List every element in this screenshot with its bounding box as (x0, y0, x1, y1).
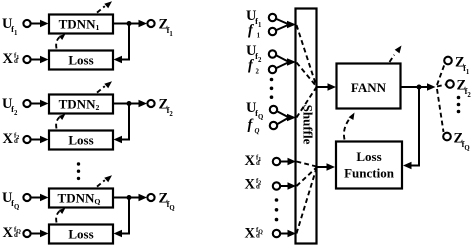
node output Z_fQ (147, 194, 154, 201)
svg-text:TDNN1: TDNN1 (59, 16, 100, 32)
block FANN (337, 64, 401, 109)
svg-text:TDNN2: TDNN2 (59, 96, 100, 112)
svg-text:X: X (3, 51, 14, 67)
node f_1 right (269, 28, 276, 35)
wire feedback FANN to Loss Function (403, 87, 419, 169)
node U_f2 right (269, 50, 276, 57)
svg-text:Function: Function (344, 166, 395, 181)
wire X_d_fQ to shuffle (281, 230, 296, 238)
svg-text:d: d (256, 233, 260, 240)
svg-text:X: X (245, 226, 256, 242)
label f_2 right (248, 58, 260, 76)
label Z_f2 out (457, 78, 472, 99)
node junction group1 (127, 21, 132, 26)
dashed arrow Loss1 to TDNN1 (56, 34, 65, 49)
label X_d_f2 (3, 131, 20, 147)
label X_d_f1 (3, 51, 20, 67)
node output Z_f1 (147, 20, 154, 27)
node input X_d_f1 (23, 56, 30, 63)
node X_d_fQ right (273, 230, 280, 237)
svg-text:d: d (256, 184, 260, 191)
label U_fQ (2, 190, 19, 211)
wire feedback group1 (114, 24, 130, 64)
svg-text:d: d (14, 232, 18, 239)
label f_1 right (248, 23, 261, 40)
wire U_f2 to TDNN2 (31, 100, 49, 108)
node f_Q right (270, 122, 277, 129)
label U_fQ right (246, 100, 263, 121)
svg-text:d: d (14, 138, 18, 145)
node junction groupQ (127, 195, 132, 200)
dashed arrow Loss2 to TDNN2 (56, 114, 65, 129)
wire FANN output (401, 83, 436, 91)
wire TDNNQ output (113, 194, 147, 202)
wire X_d_f2 to Loss2 (31, 136, 49, 144)
node input X_d_f2 (23, 136, 30, 143)
label X_d_f2 right (245, 177, 262, 193)
dashed fan output to Z_f2 (437, 85, 446, 87)
node Z_f1 out (444, 57, 452, 65)
wire pairQ to shuffle (278, 112, 297, 125)
dots right input lower (275, 198, 279, 221)
label X_d_fQ right (245, 226, 264, 242)
node junction group2 (127, 101, 132, 106)
label X_d_fQ (3, 225, 22, 241)
wire feedback groupQ (114, 198, 130, 238)
dashed fan lower: X1 to Loss node (297, 162, 317, 167)
node output Z_f2 (147, 100, 154, 107)
dashed fan upper: pairQ to FANN node (297, 87, 317, 118)
node U_f1 right (269, 14, 276, 21)
wire TDNN2 output (113, 100, 147, 108)
dashed adaptation arrow TDNNQ (97, 175, 112, 186)
svg-text:TDNNQ: TDNNQ (58, 190, 101, 206)
dashed fan upper: pair2 to FANN node (297, 63, 317, 87)
label f_Q right (248, 117, 260, 135)
block TDNNQ (49, 189, 113, 208)
wire X_d_fQ to LossQ (31, 230, 49, 238)
dashed fan output to Z_f1 (437, 63, 445, 85)
dashed arrow LossQ to TDNNQ (56, 208, 65, 223)
svg-text:d: d (256, 160, 260, 167)
wire feedback group2 (114, 104, 130, 144)
svg-text:Loss: Loss (68, 226, 93, 241)
label Z_f1 (159, 17, 174, 38)
wire shuffle to Loss Function (317, 163, 336, 171)
svg-text:Q: Q (255, 128, 260, 135)
block LossQ (49, 225, 113, 244)
label U_f1 (2, 16, 18, 37)
dashed adaptation arrow FANN (390, 46, 402, 63)
svg-text:2: 2 (256, 68, 260, 75)
dots right input upper (270, 78, 274, 99)
svg-text:FANN: FANN (351, 80, 387, 95)
node input U_fQ (23, 194, 30, 201)
block TDNN1 (49, 15, 113, 34)
node Z_f2 out (446, 80, 454, 88)
block Shuffle (296, 9, 317, 244)
dashed fan upper: pair1 to FANN node (297, 25, 317, 87)
block Loss Function (336, 142, 402, 189)
svg-text:X: X (3, 225, 14, 241)
dashed fan output to Z_fQ (437, 89, 444, 132)
label U_f1 right (246, 8, 262, 29)
svg-text:Loss: Loss (68, 132, 93, 147)
label Z_fQ (159, 191, 175, 212)
svg-text:Loss: Loss (356, 149, 381, 164)
svg-text:Loss: Loss (68, 52, 93, 67)
svg-text:X: X (245, 153, 256, 169)
node X_d_f2 right (273, 182, 280, 189)
node junction FANN output (417, 85, 422, 90)
dashed adaptation arrow TDNN2 (97, 81, 112, 92)
label U_f2 (2, 96, 18, 117)
dashed fan lower: XQ to Loss node (297, 168, 317, 234)
wire pair2 to shuffle (277, 56, 297, 69)
svg-text:X: X (3, 131, 14, 147)
node U_fQ right (270, 106, 277, 113)
svg-text:d: d (14, 58, 18, 65)
block Loss1 (49, 51, 113, 70)
wire X_d_f1 to shuffle (281, 158, 296, 166)
node Z_fQ out (443, 133, 451, 141)
node f_2 right (269, 66, 276, 73)
label Z_f2 (159, 97, 174, 118)
svg-text:X: X (245, 177, 256, 193)
wire X_d_f1 to Loss1 (31, 56, 49, 64)
dots output (457, 96, 461, 114)
wire U_f1 to TDNN1 (31, 20, 49, 28)
svg-text:Shuffle: Shuffle (301, 105, 316, 145)
label X_d_f1 right (245, 153, 262, 169)
node input U_f1 (23, 20, 30, 27)
wire TDNN1 output (113, 20, 147, 28)
node input X_d_fQ (23, 230, 30, 237)
label U_f2 right (246, 43, 262, 64)
dashed fan lower: X2 to Loss node (297, 168, 317, 187)
label Z_fQ out (454, 131, 470, 152)
node input U_f2 (23, 100, 30, 107)
wire shuffle to FANN (317, 83, 337, 91)
wire X_d_f2 to shuffle (281, 182, 296, 190)
dashed arrow Loss Function to FANN (344, 113, 355, 140)
block Loss2 (49, 131, 113, 150)
wire pair1 to shuffle (277, 19, 297, 30)
svg-text:1: 1 (257, 32, 261, 39)
block TDNN2 (49, 95, 113, 114)
node X_d_f1 right (273, 158, 280, 165)
vertical dots left column (77, 162, 80, 180)
wire U_fQ to TDNNQ (31, 194, 49, 202)
label Z_f1 out (455, 55, 470, 76)
dashed adaptation arrow TDNN1 (97, 1, 112, 12)
